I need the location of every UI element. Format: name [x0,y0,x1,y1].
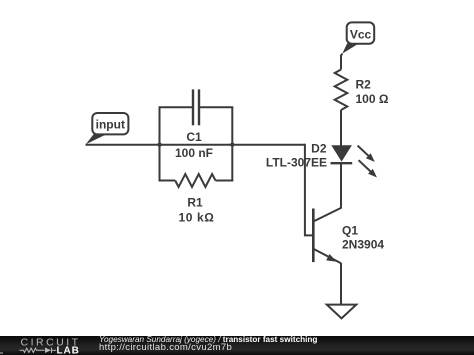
svg-text:R1: R1 [187,195,203,209]
node B dot [230,143,234,147]
wire LED cathode to collector [340,163,342,208]
LED D2 triangle [331,145,352,161]
transistor Q1 base bar [312,209,315,263]
Vcc flag box [347,22,375,43]
wire Vcc to R2 [341,54,342,70]
transistor Q1 emitter lead [313,249,341,263]
svg-text:LTL-307EE: LTL-307EE [266,155,327,169]
svg-text:Q1: Q1 [342,223,358,237]
wire loop top-left to capacitor [159,106,194,108]
footer credit line [99,335,317,344]
Vcc flag tail [342,43,358,53]
logo resistor-diode icon [20,348,57,354]
footer left accent mark [0,352,3,354]
svg-text:100 Ω: 100 Ω [356,92,389,106]
wire emitter down to ground [340,263,342,305]
wire node B to bend [232,144,305,146]
LED light arrow 2 [359,160,377,177]
resistor R1 zigzag [175,174,215,187]
wire loop right edge [231,107,233,180]
svg-text:D2: D2 [311,142,327,156]
footer bar [0,336,474,355]
wire loop left edge [159,107,161,180]
svg-text:input: input [96,118,125,132]
capacitor C1 plates [193,89,199,125]
CircuitLab logo wordmark [0,336,95,355]
svg-text:Vcc: Vcc [350,27,372,41]
transistor Q1 emitter arrow [326,254,337,262]
wire loop bottom-left [159,180,176,182]
wire bend down to base level [305,144,313,236]
svg-text:R2: R2 [356,77,372,91]
input flag tail [86,134,107,144]
svg-text:10 kΩ: 10 kΩ [179,211,215,225]
svg-text:100 nF: 100 nF [175,146,213,160]
LED light arrow 1 [358,146,375,162]
wire loop bottom-right [216,180,234,182]
wire R2 to LED anode [340,110,342,146]
wire input to node A [86,144,160,146]
node A dot [157,143,161,147]
svg-text:LAB: LAB [57,345,80,355]
transistor Q1 collector lead [313,207,341,222]
footer url line [99,342,232,353]
wire capacitor to loop top-right [199,106,233,108]
resistor R2 zigzag [335,70,348,111]
LED D2 cathode bar [331,162,353,164]
svg-text:C1: C1 [186,130,202,144]
ground symbol [327,305,357,319]
svg-text:2N3904: 2N3904 [342,237,384,251]
input flag box [92,113,128,134]
wire node A to node B (through RC center) [160,144,233,146]
